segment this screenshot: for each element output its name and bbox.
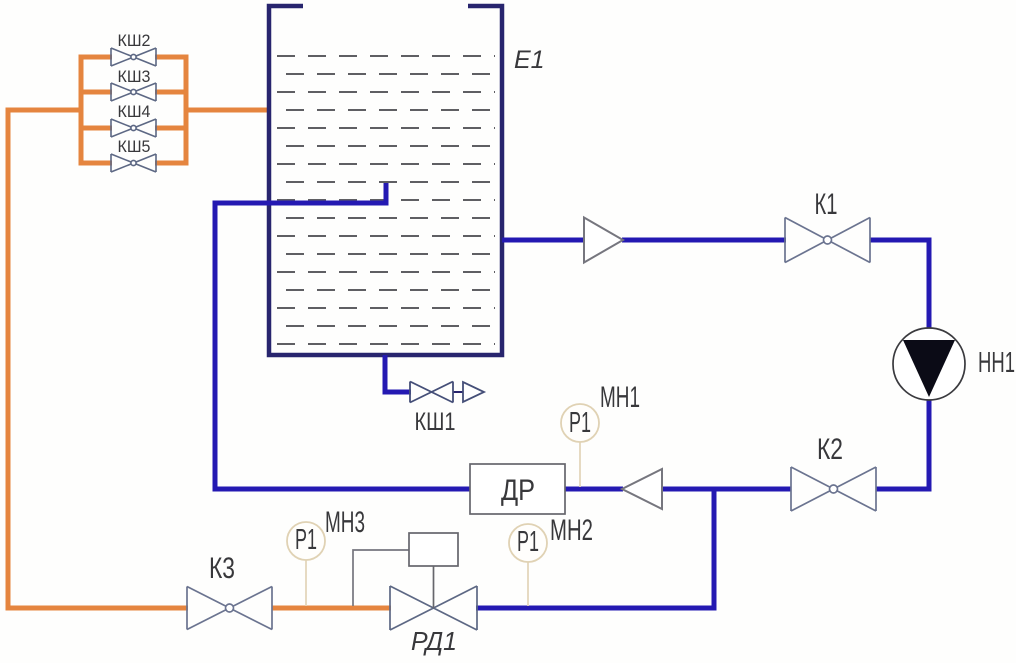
svg-text:К1: К1: [815, 188, 838, 221]
svg-text:Р1: Р1: [295, 524, 317, 556]
regulator valve RD1 stem: [433, 566, 435, 608]
svg-text:КШ3: КШ3: [118, 67, 151, 86]
tank E1 liquid level dashes: [277, 56, 495, 344]
svg-text:К2: К2: [817, 433, 843, 466]
wire: K3 to RD1: [272, 606, 391, 611]
wire: corner down to pump HH1: [927, 238, 932, 330]
wire: bottom run junction to RD1: [476, 606, 717, 611]
wire: upturned pipe end inside tank: [384, 183, 389, 206]
svg-text:РД1: РД1: [411, 626, 457, 656]
tank E1 outline (open top): [269, 6, 502, 355]
wire: bottom horizontal to valve K3: [6, 606, 189, 611]
gauge MN3 stem: [305, 560, 307, 606]
wire: DR box to left riser: [213, 487, 472, 492]
wire: K2 to junction: [663, 487, 791, 492]
valve KSh1 (tank drain): [410, 382, 453, 403]
svg-text:КШ4: КШ4: [118, 102, 151, 121]
wire: manifold to tank E1: [186, 108, 269, 113]
wire: main supply horizontal left of manifold: [6, 108, 82, 113]
valve KSh4: [111, 119, 156, 137]
drain nozzle triangle: [463, 382, 484, 402]
wire: tank drain horizontal to KSh1: [383, 390, 412, 395]
wire: K1 to top right corner: [870, 238, 932, 243]
svg-text:МН1: МН1: [600, 381, 640, 414]
wire: left riser up to tank inlet: [213, 203, 218, 492]
wire: manifold right bar: [184, 55, 189, 166]
svg-text:МН2: МН2: [550, 514, 593, 547]
svg-text:КШ1: КШ1: [415, 408, 456, 436]
wire: manifold branch row 1 (KSh2): [81, 55, 186, 60]
wire: bottom of pump leg to K2: [876, 487, 932, 492]
svg-text:Е1: Е1: [514, 46, 545, 74]
regulator valve RD1 body: [390, 586, 477, 630]
valve KSh2: [111, 48, 156, 66]
wire: check valve to K1: [622, 238, 786, 243]
valve KSh3: [111, 83, 156, 101]
gauge MN3 (P1): [287, 522, 325, 560]
wire: KSh1 to drain nozzle: [453, 391, 464, 393]
svg-text:НН1: НН1: [978, 347, 1015, 379]
throttle DR box: [470, 464, 565, 514]
check valve (tank outlet): [584, 218, 623, 263]
wire: junction riser down: [712, 487, 717, 611]
svg-text:ДР: ДР: [501, 474, 535, 507]
wire: left riser down to K3 line: [6, 108, 11, 611]
wire: manifold branch row 4 (KSh5): [81, 161, 186, 166]
gauge MN2 (P1): [509, 524, 547, 562]
regulator valve RD1 actuator box: [409, 533, 458, 566]
wire: pump HH1 down: [927, 399, 932, 492]
wire: tank outlet to check valve: [502, 238, 585, 243]
wire: tank drain down: [383, 355, 388, 395]
wire: manifold left bar: [79, 55, 84, 166]
check valve (before DR): [622, 469, 662, 509]
wire: tank inlet horizontal into tank: [213, 201, 387, 206]
valve K1: [785, 218, 870, 263]
pump HH1: [893, 328, 965, 400]
svg-text:КШ2: КШ2: [118, 31, 151, 50]
wire: check valve 2 to DR box: [564, 487, 623, 492]
wire: manifold branch row 3 (KSh4): [81, 126, 186, 131]
wire: manifold branch row 2 (KSh3): [81, 90, 186, 95]
svg-text:Р1: Р1: [517, 526, 539, 558]
gauge MN2 stem: [527, 562, 529, 606]
gauge MN1 (P1): [561, 404, 599, 442]
valve K2: [791, 467, 876, 511]
regulator valve RD1 impulse line: [353, 550, 410, 606]
gauge MN1 stem: [579, 442, 581, 487]
svg-text:КШ5: КШ5: [118, 137, 151, 156]
valve KSh5: [111, 154, 156, 172]
valve K3: [187, 587, 272, 630]
svg-text:МН3: МН3: [325, 506, 365, 539]
svg-text:К3: К3: [209, 552, 235, 585]
svg-text:Р1: Р1: [569, 407, 591, 439]
